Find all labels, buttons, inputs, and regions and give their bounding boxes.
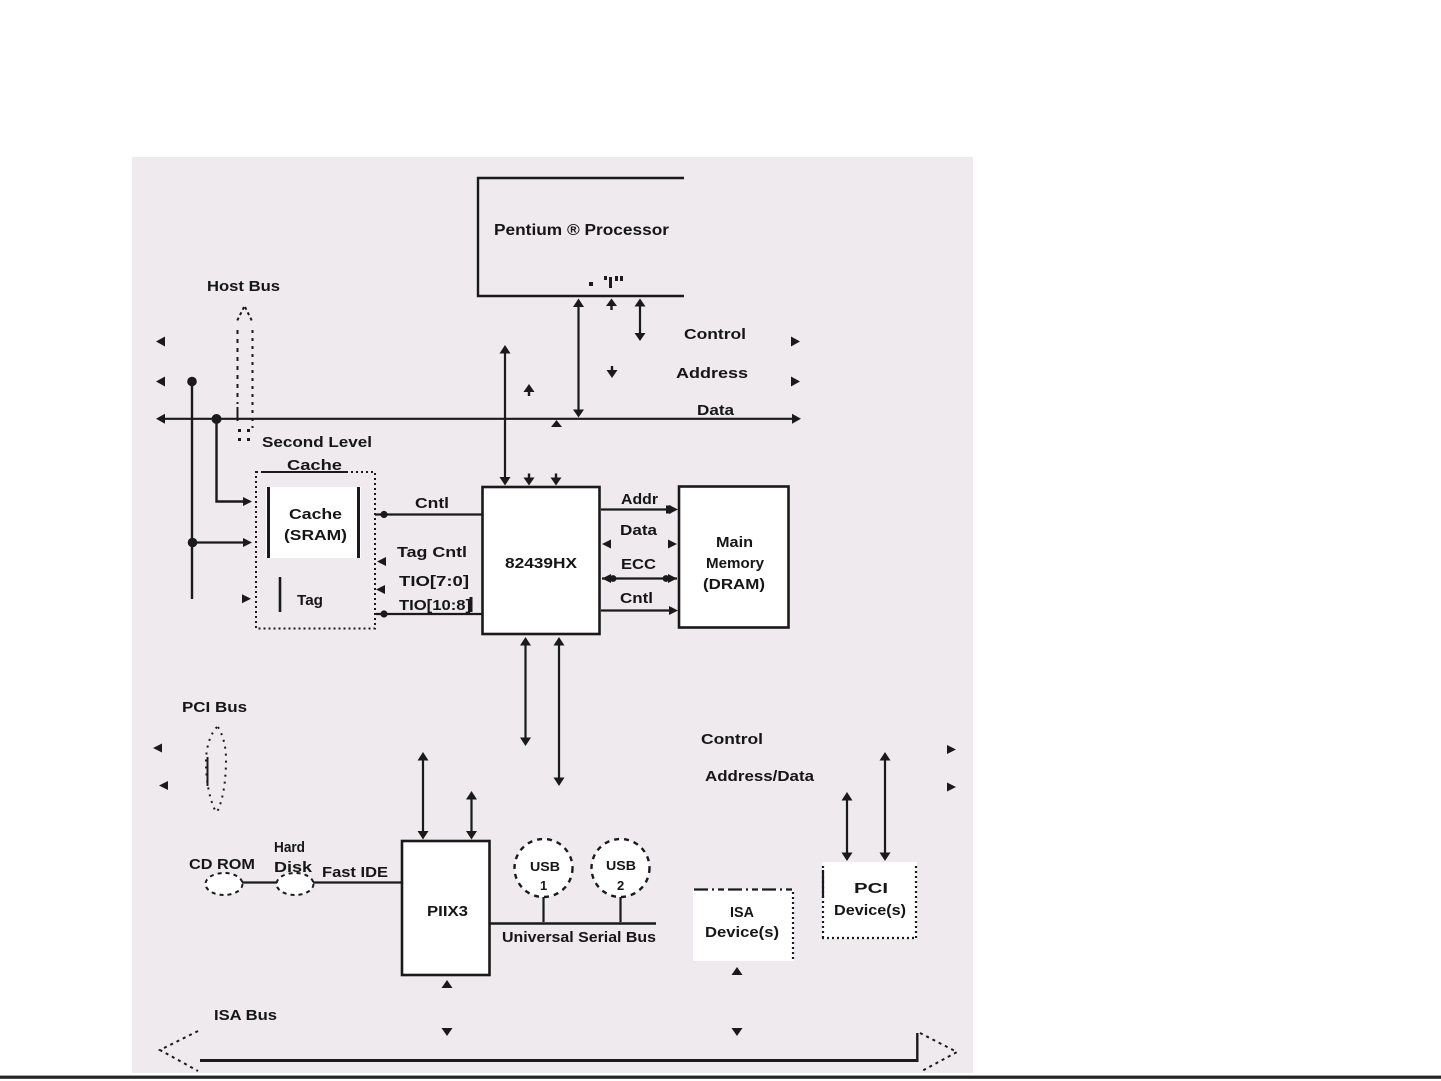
svg-text:(DRAM): (DRAM) (703, 577, 765, 593)
wire pci device arrow x=847 (846, 797, 848, 855)
arrowhead data-left (156, 414, 165, 424)
arrowhead pci addr right (947, 783, 956, 792)
svg-text:Address/Data: Address/Data (705, 769, 815, 785)
arrowhead tag row x=251 (242, 594, 251, 603)
svg-text:PIIX3: PIIX3 (427, 904, 468, 920)
box U3 PIIX3 (402, 841, 490, 975)
solid run of top edge under label (262, 471, 346, 473)
svg-text:Cntl: Cntl (620, 591, 653, 607)
junction dot (187, 377, 197, 387)
arrowhead below ISA devices (732, 967, 743, 975)
stray scan marks inside processor box (589, 276, 623, 288)
arrowhead address-left (156, 377, 165, 387)
arrowhead control-left (156, 337, 165, 347)
arrowhead down at chip top x=556 (551, 478, 562, 486)
host bus callout end dots (238, 429, 250, 441)
box Main Memory DRAM (679, 487, 789, 628)
arrowhead pci control left (153, 744, 162, 753)
arrowhead stray up x=529 y=384 (524, 384, 535, 392)
svg-text:USB: USB (606, 858, 636, 873)
arrowhead stray down x=612 y=378 (607, 370, 618, 378)
svg-text:Disk: Disk (274, 860, 313, 876)
diagram gray background (132, 157, 973, 1073)
svg-text:2: 2 (617, 878, 624, 893)
arrowhead below PIIX3 (442, 980, 453, 988)
svg-text:ISA: ISA (730, 905, 755, 921)
svg-text:Tag: Tag (297, 593, 323, 609)
wire ECC (602, 577, 677, 579)
arrowhead TIO[7:0] (376, 585, 385, 594)
arrowhead down at chip top x=529 (524, 478, 535, 486)
svg-text:TIO[10:8]: TIO[10:8] (399, 598, 471, 614)
arrowhead data-right (792, 414, 801, 424)
wire cntl dram (601, 609, 671, 611)
arrowhead control-right (791, 337, 800, 347)
host bus dashed callout arrow (237, 307, 253, 428)
wire TIO[10:8] (376, 613, 482, 615)
arrow stub under CPU x=611 (606, 299, 617, 307)
wire data bus horizontal (161, 418, 797, 420)
svg-text:Universal Serial Bus: Universal Serial Bus (502, 930, 656, 946)
wire pci vertical x=559 below chip (558, 642, 560, 780)
svg-text:PCI: PCI (854, 881, 888, 897)
svg-text:CD ROM: CD ROM (189, 857, 255, 873)
arrowhead tag cntl (377, 557, 386, 566)
arrowhead above ISA bus x=737 (732, 1028, 743, 1036)
svg-text:USB: USB (530, 859, 560, 874)
svg-text:Data: Data (620, 523, 658, 539)
svg-text:Control: Control (684, 327, 746, 343)
arrowhead data-dram left (602, 540, 611, 549)
svg-text:TIO[7:0]: TIO[7:0] (399, 574, 469, 590)
wire usb2 stem (619, 897, 621, 922)
ISA bus dashed arrowhead right (920, 1033, 957, 1072)
box cache SRAM (266, 487, 361, 558)
svg-text:Main: Main (716, 535, 753, 551)
arrowhead pci control right (947, 745, 956, 754)
wire addr (601, 508, 671, 510)
svg-text:Cache: Cache (289, 507, 342, 523)
svg-text:Second Level: Second Level (262, 435, 372, 451)
wire left host vertical A x=192 (191, 381, 193, 599)
svg-text:ECC: ECC (621, 557, 657, 573)
wire usb1 stem (542, 897, 544, 922)
circle USB1 (515, 839, 573, 897)
svg-text:Addr: Addr (621, 492, 658, 508)
wire CPU control vertical x=640 (639, 303, 641, 336)
svg-text:Hard: Hard (274, 840, 305, 856)
svg-text:Cntl: Cntl (415, 496, 449, 512)
svg-text:Device(s): Device(s) (705, 925, 779, 941)
svg-text:Control: Control (701, 732, 763, 748)
arrowhead data-dram right (668, 540, 677, 549)
box Tag (left bar only) (279, 577, 282, 612)
svg-text:PCI Bus: PCI Bus (182, 700, 247, 716)
arrowhead address-right (791, 377, 800, 387)
wire CPU data vertical x=578 (577, 303, 579, 412)
svg-text:Fast IDE: Fast IDE (322, 865, 388, 881)
svg-text:Data: Data (697, 403, 735, 419)
box U1 Pentium Processor (open right side) (478, 178, 684, 296)
wire branch to cache lower (192, 541, 245, 543)
svg-text:Pentium ® Processor: Pentium ® Processor (494, 222, 669, 239)
pci bus dashed callout (206, 727, 226, 812)
box ISA Devices (693, 889, 794, 961)
wire cntl cache (375, 513, 482, 515)
wire fast IDE (313, 881, 402, 883)
svg-text:82439HX: 82439HX (505, 556, 577, 572)
box U2 82439HX (483, 487, 600, 634)
wire pci vertical x=423 above PIIX3 (422, 757, 424, 834)
ellipse Hard Disk (277, 873, 314, 895)
wire universal serial bus (490, 922, 656, 924)
wire pci device arrow x=885 (884, 757, 886, 855)
wire cdrom-harddisk (242, 881, 277, 883)
box PCI Device(s) (822, 862, 917, 939)
svg-text:Device(s): Device(s) (834, 903, 906, 919)
wire left host vertical B x=216 (217, 419, 246, 502)
wire ISA bus (200, 1059, 918, 1062)
svg-text:1: 1 (540, 878, 547, 893)
ISA bus dashed arrowhead left (160, 1031, 198, 1071)
wire pci vertical x=525 below chip (524, 642, 526, 740)
arrowhead tiny up below data line x=556 (551, 420, 562, 427)
bottom page rule (0, 1076, 1441, 1079)
ellipse CD ROM (206, 873, 243, 895)
arrowhead pci addr left (159, 781, 168, 790)
wire x=505 vertical above 82439HX (504, 352, 506, 478)
svg-text:Memory: Memory (706, 556, 764, 572)
wire pci vertical x=471 above PIIX3 (470, 796, 472, 834)
svg-text:Host Bus: Host Bus (207, 279, 280, 295)
svg-text:Tag Cntl: Tag Cntl (397, 545, 467, 561)
second level cache dotted box (256, 472, 375, 629)
svg-text:ISA Bus: ISA Bus (214, 1008, 277, 1024)
svg-text:(SRAM): (SRAM) (284, 528, 347, 544)
junction dot (188, 538, 198, 548)
arrowhead above ISA bus x=447 (442, 1028, 453, 1036)
circle USB2 (592, 839, 650, 897)
svg-text:Address: Address (676, 366, 748, 382)
